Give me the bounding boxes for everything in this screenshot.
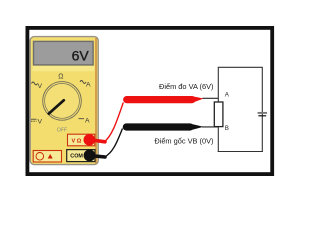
- svg-text:Điểm gốc VB (0V): Điểm gốc VB (0V): [154, 137, 213, 146]
- red probe taper tip: [191, 96, 204, 103]
- svg-text:OFF: OFF: [57, 127, 67, 133]
- dial label AC volts: [32, 82, 43, 90]
- black probe handle: [126, 123, 190, 130]
- svg-text:6V: 6V: [72, 48, 90, 64]
- multimeter DMM body: [30, 37, 98, 165]
- V-ohm jack box: [68, 134, 95, 146]
- svg-text:V: V: [38, 118, 43, 125]
- svg-text:V: V: [38, 83, 43, 90]
- red probe handle: [127, 96, 192, 103]
- wire bottom horizontal: [218, 151, 263, 153]
- red jack: [84, 134, 96, 146]
- black probe taper tip: [189, 123, 204, 130]
- black probe tip wire to node B: [202, 126, 218, 128]
- multimeter body right shading: [95, 38, 97, 164]
- battery cell plate top: [258, 112, 267, 114]
- amps jack circle: [36, 153, 44, 161]
- dial label DC volts: [31, 118, 43, 125]
- black plug stub: [89, 155, 105, 157]
- svg-text:Điểm đo VA (6V): Điểm đo VA (6V): [159, 82, 214, 91]
- svg-text:V Ω: V Ω: [72, 138, 82, 144]
- amps jack triangle: [48, 154, 53, 159]
- svg-text:A: A: [85, 117, 90, 124]
- body highlight band: [33, 66, 95, 71]
- red lead wire: [104, 103, 123, 142]
- battery cell plate bottom: [258, 115, 266, 117]
- svg-text:COM: COM: [70, 154, 83, 160]
- rotary dial inner ring: [45, 84, 80, 119]
- wire top horizontal: [218, 66, 263, 68]
- wire left vertical bottom: [217, 126, 219, 152]
- amps jack box: [33, 151, 61, 163]
- LCD display: [34, 41, 94, 65]
- resistor R between A and B: [214, 102, 223, 127]
- dial label DC amps: [79, 117, 91, 124]
- border frame: [27, 28, 272, 174]
- black lead wire: [105, 129, 123, 158]
- dial pointer knob: [49, 100, 64, 113]
- svg-text:B: B: [225, 125, 229, 132]
- rotary dial outer ring: [43, 82, 82, 121]
- COM jack box: [67, 150, 95, 162]
- red plug stub: [89, 140, 105, 142]
- dial label AC amps: [80, 80, 91, 88]
- red probe tip wire to node A: [203, 97, 219, 99]
- wire right vertical: [261, 67, 263, 152]
- svg-text:Ω: Ω: [58, 73, 63, 80]
- wire left vertical top: [217, 67, 219, 102]
- black jack: [84, 150, 96, 162]
- svg-text:A: A: [86, 82, 91, 89]
